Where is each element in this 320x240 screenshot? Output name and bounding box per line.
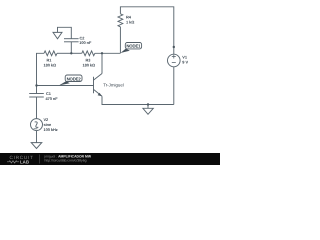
separator bbox=[39, 155, 41, 164]
svg-text:180 kΩ: 180 kΩ bbox=[83, 63, 96, 68]
wire R4 bottom lead bbox=[119, 27, 121, 54]
wire V1 bottom bbox=[173, 67, 175, 105]
node dot C2/R1/R3 junction bbox=[70, 52, 72, 54]
svg-text:Tr-Jmiguel: Tr-Jmiguel bbox=[103, 83, 124, 88]
node dot ground junction bottom bbox=[147, 103, 149, 105]
capacitor C2 bbox=[64, 34, 79, 53]
svg-text:NODE2: NODE2 bbox=[67, 76, 82, 81]
svg-text:180 kΩ: 180 kΩ bbox=[44, 63, 57, 68]
wire C2 top to ground bbox=[58, 27, 72, 34]
wire left column top corner bbox=[37, 53, 45, 85]
source V2 bbox=[31, 119, 43, 131]
wire C2 junction to R3 bbox=[71, 52, 82, 54]
ground (top left) bbox=[53, 32, 62, 38]
resistor R3 bbox=[82, 51, 95, 56]
svg-text:LAB: LAB bbox=[20, 160, 29, 165]
wire collector up to junction bbox=[101, 53, 103, 73]
wire V2 bottom to ground bbox=[36, 131, 38, 143]
wire emitter down and bottom rail bbox=[102, 96, 174, 104]
junction dots bbox=[35, 46, 175, 106]
voltage source V1 bbox=[168, 54, 181, 67]
wire base rail bbox=[37, 85, 94, 87]
transistor Q1 body bbox=[94, 74, 103, 97]
node flag NODE2 bbox=[59, 75, 82, 85]
node dot V1 plus terminal bbox=[173, 46, 175, 48]
svg-text:470 nF: 470 nF bbox=[46, 96, 59, 101]
wire R1 to C2 junction bbox=[57, 52, 71, 54]
node dot collector junction bbox=[101, 52, 103, 54]
svg-text:http://circuitlab.com/c/38y6g: http://circuitlab.com/c/38y6g bbox=[45, 159, 87, 163]
logo resistor zigzag bbox=[7, 161, 19, 163]
svg-text:9 V: 9 V bbox=[182, 60, 188, 65]
svg-text:100 nF: 100 nF bbox=[79, 40, 92, 45]
wire top rail from R4 top to V1 top bbox=[120, 7, 173, 54]
svg-text:NODE1: NODE1 bbox=[126, 44, 141, 49]
svg-text:100 kHz: 100 kHz bbox=[44, 127, 58, 132]
node flag NODE1 bbox=[120, 43, 141, 54]
ground (bottom middle) bbox=[143, 105, 153, 115]
svg-text:1 kΩ: 1 kΩ bbox=[126, 20, 134, 25]
wire R3 to collector junction to R4 corner bbox=[95, 52, 121, 54]
resistor R4 bbox=[118, 14, 123, 27]
wire input column: junction to C1 bbox=[36, 86, 38, 94]
ground (bottom left) bbox=[31, 143, 42, 149]
capacitor C1 bbox=[29, 94, 44, 119]
component labels bbox=[44, 15, 189, 132]
footer bar bbox=[0, 153, 220, 165]
resistor R1 bbox=[44, 51, 57, 56]
node dot base/C1 junction bbox=[35, 84, 37, 86]
